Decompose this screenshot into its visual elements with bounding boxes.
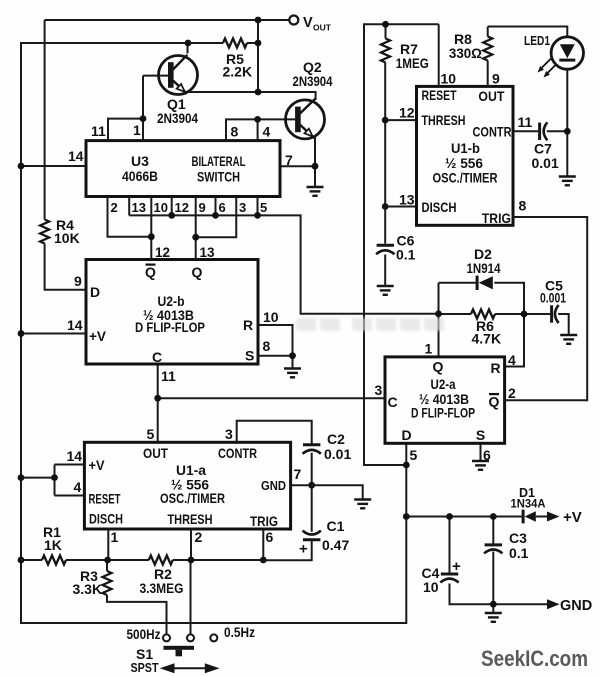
svg-text:SPST: SPST <box>131 661 159 675</box>
junction R7 DISCH <box>382 203 389 210</box>
svg-text:D FLIP-FLOP: D FLIP-FLOP <box>411 405 475 421</box>
svg-text:6: 6 <box>266 529 274 545</box>
junction U1-a supply left <box>18 474 25 481</box>
svg-text:330Ω: 330Ω <box>449 45 482 61</box>
IC text U2-b right pins <box>152 317 254 365</box>
svg-text:10K: 10K <box>54 230 80 246</box>
label C5 value <box>540 278 566 306</box>
svg-text:RESET: RESET <box>422 87 457 103</box>
wire U2-b R pin 10 and S pin 8 to ground <box>258 325 293 368</box>
svg-text:Q: Q <box>145 264 156 280</box>
junction bus pin5 <box>254 212 261 219</box>
wire Q1 collector up to R5 node <box>187 43 189 54</box>
wire U1-a TRIG pin 6 stub <box>262 529 264 560</box>
wire top rail to Vout terminal <box>45 19 290 21</box>
label 500Hz <box>127 627 161 642</box>
switch S1 wiper bar <box>164 646 195 657</box>
resistor R5 <box>223 39 247 48</box>
svg-text:DISCH: DISCH <box>89 511 123 527</box>
label C4 value + <box>422 558 462 595</box>
svg-text:5: 5 <box>147 426 155 442</box>
svg-text:8: 8 <box>231 124 239 140</box>
svg-text:GND: GND <box>261 478 286 493</box>
svg-text:OSC./TIMER: OSC./TIMER <box>160 490 225 506</box>
watermark faint <box>296 318 444 331</box>
svg-text:OUT: OUT <box>313 23 332 33</box>
svg-text:LED1: LED1 <box>524 33 550 48</box>
svg-text:+V: +V <box>89 328 107 344</box>
wire U3 pin 12 stub <box>171 197 173 216</box>
capacitor C4 polarized <box>440 574 458 583</box>
resistor R1 <box>42 556 66 565</box>
wire C3 branch with ground stub <box>492 517 494 613</box>
svg-text:7: 7 <box>285 152 293 168</box>
svg-text:3: 3 <box>225 426 233 442</box>
pin labels U1-b <box>399 71 533 214</box>
svg-text:S: S <box>245 348 254 364</box>
wire R5 leads <box>188 42 258 44</box>
wire U3 pin 6 stub <box>215 197 217 216</box>
svg-text:6: 6 <box>219 200 226 215</box>
arrowhead +V terminal <box>547 512 560 522</box>
junction THRESH <box>188 557 195 564</box>
svg-text:1K: 1K <box>44 537 62 553</box>
svg-text:1N34A: 1N34A <box>511 497 546 511</box>
junction U3 pin14 left rail <box>18 163 25 170</box>
logo SeekIC.com <box>481 646 588 671</box>
label C2 value <box>324 431 351 462</box>
wire U1-b RESET pin 10 stub <box>438 24 440 86</box>
junction +V rail C3 <box>490 513 497 520</box>
IC U2-a 4013B flip-flop box <box>385 357 505 443</box>
wire R4 branch: top corner down through R4 to U2-b pin 9 D input <box>45 20 86 290</box>
svg-text:2: 2 <box>508 385 516 401</box>
junction GND rail C3 <box>490 601 497 608</box>
wire R7 leads down through THRESH and DISCH nodes to C6 <box>384 24 386 285</box>
junction clock node <box>154 395 161 402</box>
wire vertical x258 Vout to Q1 emitter row <box>257 20 259 92</box>
junction Q1 base pin1 <box>140 115 147 122</box>
svg-text:2: 2 <box>111 200 118 215</box>
junction Vout rail x258 <box>255 17 262 24</box>
resistor R6 <box>471 310 495 319</box>
junction U3 pin7 Q2 emitter <box>312 163 319 170</box>
svg-text:TRIG: TRIG <box>250 513 278 529</box>
resistor R2 <box>149 556 173 565</box>
svg-text:SWITCH: SWITCH <box>197 169 240 185</box>
label R5 value <box>223 51 253 80</box>
svg-text:14: 14 <box>67 317 83 333</box>
svg-text:13: 13 <box>200 245 216 260</box>
svg-text:13: 13 <box>399 192 415 208</box>
pin label U2-b 14 <box>67 317 83 333</box>
wire U3 pin 10 to U2-b pin 12 Qbar <box>150 197 152 260</box>
capacitor C7 <box>540 122 548 140</box>
wire U3 pin 3 to Q node <box>196 197 237 238</box>
label Q1 <box>157 96 198 126</box>
ground C6 <box>377 286 394 295</box>
svg-text:8: 8 <box>519 198 527 214</box>
transistor Q2 2N3904 NPN <box>286 99 325 139</box>
wire U1-a DISCH pin 1 stub <box>107 529 109 560</box>
svg-text:0.47: 0.47 <box>322 537 349 553</box>
IC text U2-b <box>135 264 205 335</box>
junction R7 THRESH <box>382 117 389 124</box>
junction D2 anode R6 right C5 <box>521 311 528 318</box>
IC text U2-b left pins <box>89 284 107 344</box>
junction Q1 emitter row <box>255 89 262 96</box>
label R1 value <box>43 524 62 553</box>
pin labels U3 bottom <box>111 200 268 215</box>
svg-text:S: S <box>476 427 485 443</box>
ground Q2 emitter U3 pin7 <box>307 187 324 196</box>
label C7 value <box>532 141 559 172</box>
IC U2-b 4013B flip-flop box <box>86 260 258 365</box>
junction U2-b +V pin14 <box>18 330 25 337</box>
IC text U1-b <box>422 87 512 140</box>
wire U3 pin 9 to U2-b pin 13 Q <box>195 197 197 260</box>
svg-text:1: 1 <box>111 529 119 545</box>
wire +V rail to diode D1 <box>406 516 549 518</box>
pin label U2-b 11 <box>161 368 176 384</box>
svg-text:DISCH: DISCH <box>422 199 457 215</box>
svg-text:RESET: RESET <box>89 491 121 507</box>
pin label U3 14 <box>68 148 84 164</box>
label D2 <box>467 246 501 276</box>
svg-text:OUT: OUT <box>143 445 168 461</box>
svg-text:C: C <box>387 394 397 410</box>
wire R8 bottom to U1-b OUT pin 9 <box>487 61 489 87</box>
svg-text:4.7K: 4.7K <box>472 331 502 347</box>
svg-text:+V: +V <box>89 457 106 473</box>
wire U1-a CONTR pin 3 to C2 C1 chain <box>237 421 312 561</box>
terminal Vout open circle <box>289 16 298 25</box>
wire U3 pin 13 stub <box>128 197 130 216</box>
label R6 value <box>472 318 502 347</box>
svg-text:9: 9 <box>74 273 82 289</box>
label R7 value <box>396 41 429 71</box>
svg-text:4: 4 <box>74 479 82 495</box>
svg-text:8: 8 <box>263 338 271 354</box>
wire clock line to U2-a C pin 3 <box>158 397 385 399</box>
svg-text:2N3904: 2N3904 <box>157 110 198 126</box>
svg-text:0.01: 0.01 <box>532 155 559 171</box>
wire U1-b DISCH pin 13 <box>385 206 416 208</box>
svg-text:2.2K: 2.2K <box>223 64 253 80</box>
svg-text:4: 4 <box>263 124 271 140</box>
svg-text:500Hz: 500Hz <box>127 627 161 642</box>
junction +V rail left <box>403 513 410 520</box>
svg-text:OSC./TIMER: OSC./TIMER <box>433 170 498 186</box>
label LED1 <box>524 33 550 48</box>
junction U2-a D wire x364 <box>403 462 410 469</box>
wire U3 pin 5 stub <box>257 197 259 216</box>
ground U2-a S pin 6 <box>472 461 489 470</box>
IC U3 4066B bilateral switch box <box>86 141 280 197</box>
junction TRIG C1 <box>260 557 267 564</box>
junction D2 cathode R6 left <box>435 310 442 317</box>
wire THRESH down to switch contact <box>190 560 192 635</box>
label D1 <box>511 486 546 511</box>
wire DISCH THRESH TRIG bottom rail with R1 R2 <box>21 559 263 561</box>
svg-text:+: + <box>299 541 308 558</box>
label C6 value <box>396 233 416 263</box>
wire U1-a +V pin 14 RESET pin 4 bracket <box>21 465 84 496</box>
capacitor C1 polarized <box>303 531 321 540</box>
label C1 value <box>299 518 349 558</box>
resistor R3 <box>103 571 112 595</box>
IC U1-a 556 timer box <box>84 442 290 529</box>
transistor Q1 2N3904 NPN <box>159 55 198 95</box>
svg-text:12: 12 <box>399 105 415 121</box>
svg-text:U1-b: U1-b <box>451 140 480 156</box>
svg-text:12: 12 <box>155 245 170 260</box>
resistor R8 <box>483 37 492 61</box>
capacitor C3 <box>484 545 502 554</box>
wire U1-a THRESH pin 2 stub <box>190 529 192 560</box>
svg-text:C3: C3 <box>509 530 527 546</box>
svg-text:0.1: 0.1 <box>509 545 529 561</box>
svg-text:R: R <box>243 317 253 333</box>
svg-text:V: V <box>303 15 313 31</box>
svg-text:4: 4 <box>508 352 516 368</box>
junction Q node <box>192 234 199 241</box>
pin label U2-b 9 <box>74 273 82 289</box>
junction Qbar node <box>148 233 155 240</box>
svg-text:THRESH: THRESH <box>422 112 466 128</box>
resistor R7 <box>381 39 390 63</box>
resistor R4 <box>40 220 49 244</box>
svg-text:THRESH: THRESH <box>168 511 213 527</box>
svg-text:13: 13 <box>132 200 146 215</box>
svg-text:10: 10 <box>423 579 439 595</box>
wire Q1 emitter row to Q2 collector <box>185 92 316 100</box>
svg-text:D: D <box>90 284 100 300</box>
junction C7 LED cathode <box>564 128 571 135</box>
svg-text:9: 9 <box>492 71 500 87</box>
svg-text:7: 7 <box>294 466 302 482</box>
svg-text:C2: C2 <box>327 431 345 447</box>
svg-text:6: 6 <box>483 447 491 463</box>
arrowhead GND terminal <box>547 599 560 609</box>
svg-text:C: C <box>152 349 162 365</box>
pin label U2-b 10 <box>263 309 279 325</box>
wire C4 branch and GND rail <box>450 517 550 605</box>
wire R3 leads to switch contact <box>107 560 167 635</box>
wire D2 anode right down to U2-a R pin 4 <box>494 283 524 367</box>
wire U1-b CONTR pin 11 to C7 <box>513 130 567 132</box>
wire U2-a S pin 6 ground stub <box>480 443 482 460</box>
svg-text:U2-a: U2-a <box>431 376 456 392</box>
svg-text:CONTR: CONTR <box>473 124 512 140</box>
svg-text:GND: GND <box>560 598 592 614</box>
pin label U3 7 <box>285 152 293 168</box>
wire U2-b C pin 11 down to U1-a OUT pin 5 <box>157 364 159 442</box>
svg-text:0.1: 0.1 <box>396 247 416 263</box>
LED1 with emission arrows <box>538 37 584 78</box>
svg-text:10: 10 <box>263 309 279 325</box>
wire U1-b THRESH pin 12 <box>385 119 416 121</box>
junction Q1 collector R5 <box>185 40 192 47</box>
junction R7 top <box>382 21 389 28</box>
junction Q2 base pin4 <box>254 116 261 123</box>
svg-text:14: 14 <box>67 448 83 464</box>
ground C5 <box>560 335 577 344</box>
label 0.5Hz <box>224 624 255 640</box>
capacitor C6 <box>376 245 394 254</box>
wire U3 pin 14 <box>21 165 86 167</box>
junction R5 right <box>255 40 262 47</box>
overline U2-b Qbar <box>146 264 156 266</box>
junction DISCH R3 <box>104 557 111 564</box>
wire +V vertical x364 from top to U2-a D pin 5 <box>364 24 439 465</box>
svg-text:5: 5 <box>260 200 267 215</box>
IC text U1-a <box>89 457 124 527</box>
svg-text:D FLIP-FLOP: D FLIP-FLOP <box>135 319 205 335</box>
svg-text:1MEG: 1MEG <box>396 55 429 71</box>
svg-text:4066B: 4066B <box>122 168 158 184</box>
svg-text:0.5Hz: 0.5Hz <box>224 624 255 640</box>
wire U2-b +V pin 14 <box>21 333 86 335</box>
svg-text:10: 10 <box>441 71 457 87</box>
capacitor C2 <box>303 445 321 454</box>
junction U2-b R S ground <box>289 352 296 359</box>
switch S1 SPST contacts <box>163 634 217 641</box>
wire D2 node left to U2-a Q pin 1 <box>439 283 476 357</box>
svg-text:1: 1 <box>133 122 141 138</box>
svg-text:BILATERAL: BILATERAL <box>192 153 246 169</box>
svg-text:2N3904: 2N3904 <box>293 73 333 89</box>
junction +V rail C4 <box>446 513 453 520</box>
IC text U2-a <box>387 359 500 444</box>
label S1 SPST <box>131 646 159 675</box>
IC text U3 <box>122 153 246 185</box>
wire +V left vertical rail and bottom rail to U2-a pin 5 <box>21 43 406 623</box>
wire R6 leads <box>439 313 525 315</box>
svg-text:OUT: OUT <box>478 88 504 104</box>
label R3 value <box>73 568 103 597</box>
label Vout terminal <box>303 15 332 33</box>
svg-text:CONTR: CONTR <box>218 445 257 461</box>
svg-text:1: 1 <box>425 341 433 357</box>
svg-text:Q: Q <box>433 359 444 375</box>
ground C3 C4 GND rail <box>485 613 502 622</box>
ground U1-a control node <box>354 500 371 509</box>
svg-text:Q: Q <box>192 264 203 280</box>
wire Q1 base to U3 pins 11 and 1 <box>108 76 169 141</box>
junction C2 C1 GND pin7 node <box>308 482 315 489</box>
svg-text:12: 12 <box>175 200 189 215</box>
wire R8 top to LED1 anode <box>488 27 568 38</box>
svg-text:14: 14 <box>68 148 84 164</box>
svg-text:2: 2 <box>195 529 203 545</box>
svg-text:3: 3 <box>239 200 246 215</box>
wire U3 pin 7 and Q2 emitter to ground <box>280 138 315 187</box>
ground U2-b R S pins <box>284 369 301 378</box>
wire U1-a GND pin 7 to ground branch <box>291 485 363 498</box>
wire Q2 base to U3 pins 8 and 4 <box>226 119 297 140</box>
svg-text:S1: S1 <box>136 646 153 662</box>
svg-text:TRIG: TRIG <box>482 210 511 226</box>
label +V terminal <box>563 509 582 526</box>
label C3 value <box>509 530 529 561</box>
switch S1 travel double arrow <box>163 665 217 672</box>
svg-text:1N914: 1N914 <box>467 260 501 276</box>
svg-text:U3: U3 <box>131 153 149 169</box>
junction bus pin12 <box>168 212 175 219</box>
wire LED1 cathode down through C7 node to ground <box>566 69 568 176</box>
svg-text:+V: +V <box>563 509 582 526</box>
svg-text:9: 9 <box>199 200 206 215</box>
label R4 value <box>54 217 80 246</box>
wire U1-b TRIG pin 8 down right side to U2-a Qbar pin 2 <box>505 217 588 400</box>
svg-text:11: 11 <box>161 368 176 384</box>
wire U3 pin 2 to Qbar node <box>108 197 152 237</box>
svg-text:11: 11 <box>91 123 106 139</box>
ground C7 LED node <box>559 177 576 186</box>
svg-text:10: 10 <box>154 200 168 215</box>
junction R1 left <box>18 557 25 564</box>
svg-text:C1: C1 <box>327 518 345 534</box>
pin labels U2-a <box>375 341 517 464</box>
svg-text:5: 5 <box>410 447 418 463</box>
svg-text:3.3K: 3.3K <box>73 581 103 597</box>
junction U1-a supply bracket <box>51 474 58 481</box>
pin label U2-b 8 <box>263 338 271 354</box>
wire U3 bottom bus to D2 R6 node <box>129 215 438 313</box>
svg-text:3: 3 <box>375 382 383 398</box>
pin labels U1-a <box>67 426 302 545</box>
pin labels U3 top <box>91 122 271 140</box>
svg-text:0.001: 0.001 <box>540 290 566 306</box>
IC U1-b 556 timer box <box>417 86 514 225</box>
svg-text:SeekIC.com: SeekIC.com <box>481 646 588 671</box>
overline U2-a Qbar <box>489 393 499 395</box>
svg-text:Q: Q <box>489 394 500 410</box>
diode D2 1N914 cathode left <box>476 276 493 290</box>
pin labels U2-b 12 13 <box>155 245 215 260</box>
label R8 value <box>449 31 482 61</box>
label R2 value <box>140 566 184 596</box>
capacitor C5 <box>552 305 559 323</box>
svg-text:D: D <box>401 427 411 443</box>
svg-text:11: 11 <box>518 114 533 130</box>
svg-text:R: R <box>490 360 500 376</box>
svg-text:0.01: 0.01 <box>324 446 351 462</box>
wire C5 leads and ground stub <box>524 314 569 334</box>
label Q2 <box>293 59 333 89</box>
junction bus pin6 <box>212 212 219 219</box>
svg-text:+: + <box>452 558 461 575</box>
label GND terminal <box>560 598 592 614</box>
svg-text:3.3MEG: 3.3MEG <box>140 580 184 596</box>
diode D1 1N34A cathode left <box>522 510 536 524</box>
